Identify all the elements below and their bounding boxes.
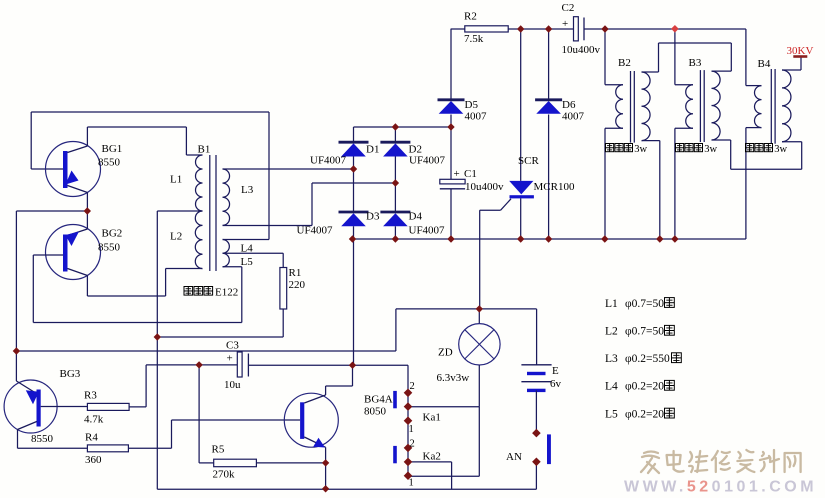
svg-text:L3: L3 [605,353,618,365]
svg-text:B1: B1 [198,144,211,156]
svg-text:φ0.2=550: φ0.2=550 [625,353,670,365]
svg-text:8550: 8550 [31,433,54,445]
svg-text:AN: AN [506,451,522,463]
svg-text:2: 2 [410,381,415,392]
svg-text:L4: L4 [605,381,618,393]
svg-text:6v: 6v [550,378,562,390]
svg-text:B3: B3 [689,57,702,69]
svg-text:D3: D3 [366,211,380,223]
svg-text:L1: L1 [605,298,618,310]
svg-text:+: + [454,168,460,180]
svg-text:R5: R5 [212,444,225,456]
svg-text:8550: 8550 [98,242,121,254]
svg-text:L2: L2 [605,326,618,338]
svg-text:B2: B2 [618,57,631,69]
svg-text:BG2: BG2 [102,228,123,240]
svg-text:R3: R3 [84,390,97,402]
svg-text:+: + [562,18,568,30]
svg-text:SCR: SCR [518,155,539,167]
svg-text:φ0.2=20: φ0.2=20 [625,408,664,420]
svg-text:MCR100: MCR100 [534,181,575,193]
svg-text:4.7k: 4.7k [84,414,104,426]
svg-text:C2: C2 [562,2,575,14]
svg-text:7.5k: 7.5k [464,33,484,45]
svg-text:1: 1 [409,424,414,435]
svg-text:+: + [227,353,233,365]
svg-text:8550: 8550 [98,157,121,169]
svg-text:3w: 3w [704,144,717,155]
svg-text:D1: D1 [366,144,379,156]
svg-text:1: 1 [409,478,414,489]
svg-text:L1: L1 [170,174,182,186]
svg-text:L4: L4 [241,243,254,255]
svg-text:R1: R1 [289,267,302,279]
svg-text:C3: C3 [226,340,239,352]
svg-text:E: E [552,365,559,377]
svg-text:D5: D5 [465,99,479,111]
svg-text:WWW.520101.COM: WWW.520101.COM [624,479,817,496]
svg-text:BG3: BG3 [60,368,81,380]
svg-text:R2: R2 [464,11,477,23]
svg-text:L5: L5 [605,408,618,420]
svg-text:10u400v: 10u400v [465,181,504,193]
svg-text:R4: R4 [85,432,98,444]
svg-text:L5: L5 [241,256,254,268]
svg-text:φ0.2=20: φ0.2=20 [625,381,664,393]
svg-text:C1: C1 [464,168,477,180]
svg-text:Ka1: Ka1 [423,412,441,424]
svg-text:360: 360 [85,454,102,466]
svg-text:BG4A: BG4A [364,394,393,406]
svg-text:270k: 270k [213,469,236,481]
svg-text:D4: D4 [409,211,423,223]
svg-text:D6: D6 [562,99,576,111]
svg-text:L3: L3 [241,184,254,196]
svg-text:3w: 3w [634,144,647,155]
svg-text:220: 220 [289,279,306,291]
svg-text:2: 2 [410,439,415,450]
svg-text:φ0.7=50: φ0.7=50 [625,298,664,310]
svg-text:UF4007: UF4007 [310,155,347,167]
svg-text:10u400v: 10u400v [562,44,601,56]
svg-text:L2: L2 [170,231,182,243]
svg-text:ZD: ZD [438,347,453,359]
svg-text:10u: 10u [224,379,241,391]
svg-text:3w: 3w [774,144,787,155]
svg-text:E122: E122 [215,286,238,298]
svg-text:BG1: BG1 [102,143,123,155]
svg-text:UF4007: UF4007 [409,155,446,167]
svg-text:6.3v3w: 6.3v3w [437,372,470,384]
svg-text:Ka2: Ka2 [423,451,441,463]
svg-text:4007: 4007 [465,111,488,123]
svg-text:B4: B4 [758,58,771,70]
svg-text:8050: 8050 [364,406,387,418]
svg-text:30KV: 30KV [787,45,814,57]
svg-text:UF4007: UF4007 [409,225,446,237]
svg-text:4007: 4007 [562,111,585,123]
svg-text:UF4007: UF4007 [297,225,334,237]
svg-text:φ0.7=50: φ0.7=50 [625,326,664,338]
